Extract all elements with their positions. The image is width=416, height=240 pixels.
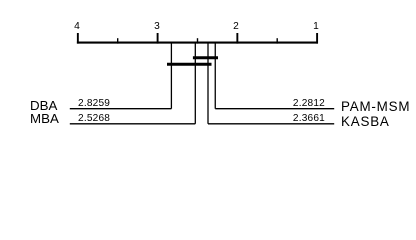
tick label 4 [74,22,80,32]
value label 2.8259 (DBA) [78,99,110,109]
drop line DBA [170,43,172,109]
minor tick 2.5 [197,38,199,43]
clique bar 2 (DBA to KASBA) [167,63,212,66]
drop line PAM-MSM [214,43,216,109]
algorithm label DBA [30,99,57,112]
algorithm label KASBA [341,115,390,128]
connector line PAM-MSM [215,108,334,110]
value label 2.2812 (PAM-MSM) [265,99,325,109]
major tick 1 [316,33,318,44]
minor tick 1.5 [276,38,278,43]
connector line MBA [70,123,196,125]
clique bar 1 (MBA to PAM-MSM) [193,56,218,59]
algorithm label MBA [30,112,59,125]
drop line KASBA [207,43,209,124]
minor tick 3.5 [117,38,119,43]
major tick 2 [236,33,238,44]
axis line [77,42,318,44]
value label 2.3661 (KASBA) [265,114,325,124]
tick label 3 [154,22,160,32]
algorithm label PAM-MSM [341,100,410,113]
drop line MBA [194,43,196,124]
major tick 3 [157,33,159,44]
major tick 4 [77,33,79,44]
connector line KASBA [208,123,334,125]
connector line DBA [70,108,172,110]
tick label 2 [234,22,240,32]
value label 2.5268 (MBA) [78,114,110,124]
tick label 1 [313,22,319,32]
